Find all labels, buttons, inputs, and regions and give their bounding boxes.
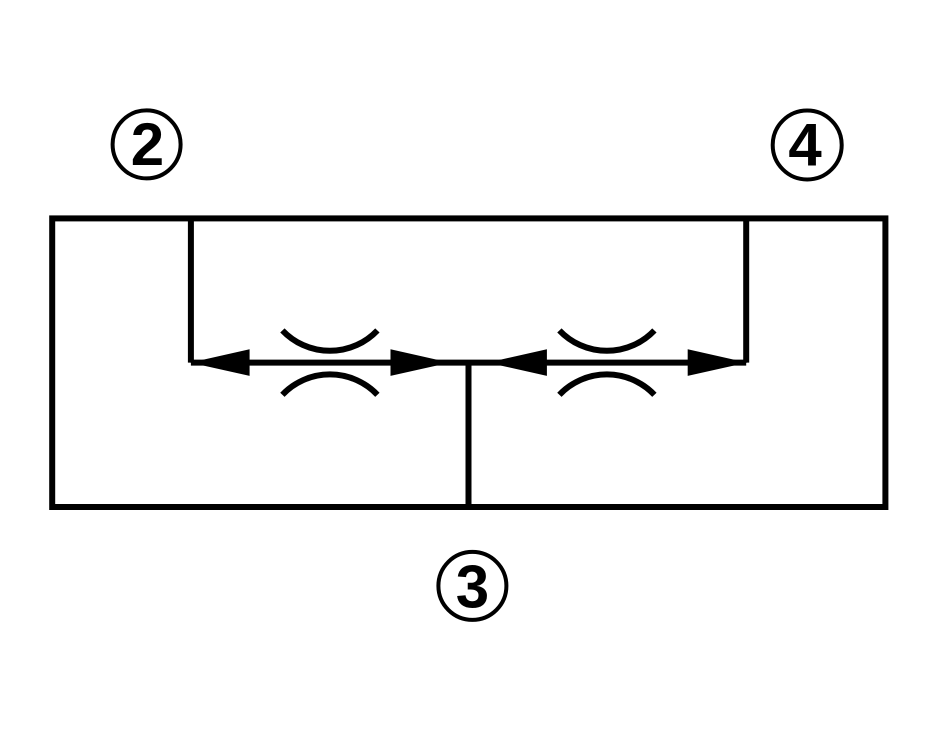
arrowhead right-pointing at right branch <box>688 349 747 376</box>
restrictor orifice arcs (left) <box>282 330 377 350</box>
wire: horizontal flow line <box>191 360 746 366</box>
port label circle 3 <box>438 552 506 620</box>
arrowhead right-pointing toward center node <box>391 349 450 376</box>
wire: left branch vertical from top edge <box>188 218 194 362</box>
port label circle 4 <box>773 111 842 180</box>
svg-text:4: 4 <box>788 112 822 179</box>
wire: center vertical to bottom edge (port 3) <box>466 363 472 507</box>
svg-text:3: 3 <box>456 553 489 620</box>
valve body outline <box>52 218 885 507</box>
wire: right branch vertical from top edge <box>743 218 749 362</box>
arrowhead left-pointing at left branch <box>190 349 249 376</box>
svg-text:2: 2 <box>131 111 164 178</box>
restrictor orifice arcs (right) <box>559 330 654 350</box>
port label circle 2 <box>113 110 181 178</box>
arrowhead left-pointing toward center node <box>488 349 547 376</box>
